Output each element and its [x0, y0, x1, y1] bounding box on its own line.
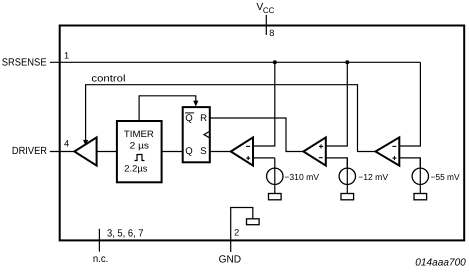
svg-text:2 µs: 2 µs: [130, 141, 150, 151]
comparator 1: [231, 137, 253, 165]
svg-text:−12 mV: −12 mV: [358, 172, 388, 182]
svg-text:SRSENSE: SRSENSE: [2, 58, 47, 69]
svg-text:CC: CC: [263, 6, 275, 15]
voltage source V1 -310 mV: [267, 158, 320, 194]
pin 1 SRSENSE label: [2, 50, 69, 68]
pulse symbol inside TIMER: [135, 155, 145, 161]
svg-text:014aaa700: 014aaa700: [415, 258, 466, 269]
svg-text:Q: Q: [185, 146, 192, 157]
svg-text:2.2µs: 2.2µs: [124, 164, 148, 174]
wire flip-flop R input from comparator 2 output: [210, 118, 304, 152]
wire SRSENSE end to comparator 3 minus input: [399, 62, 420, 146]
svg-text:GND: GND: [219, 254, 242, 265]
pin 2 GND stub: [219, 227, 242, 265]
IC package outline: [60, 26, 465, 241]
wire SRSENSE net (pin 1 horizontal): [50, 61, 420, 63]
ground symbol G4 (internal): [247, 219, 260, 225]
svg-text:4: 4: [64, 138, 69, 148]
wire comparator 2 minus input to source: [326, 158, 348, 168]
driver buffer amplifier: [74, 137, 96, 165]
svg-text:R: R: [200, 113, 207, 124]
wire comparator 1 plus input to source: [253, 157, 275, 159]
arrowhead control into driver: [83, 140, 88, 146]
wire timer right to flip-flop Q: [162, 151, 183, 153]
svg-text:1: 1: [64, 50, 69, 60]
pin 8 VCC stub: [266, 15, 274, 38]
svg-text:control: control: [91, 73, 125, 84]
wire pin 4 to driver output: [50, 151, 75, 153]
svg-text:DRIVER: DRIVER: [12, 146, 48, 157]
svg-text:8: 8: [269, 28, 274, 38]
wire flip-flop S input from comparator 1 output: [210, 151, 231, 153]
pin 4 DRIVER label: [12, 138, 69, 157]
svg-text:TIMER: TIMER: [124, 129, 154, 139]
wire driver input from timer: [97, 151, 117, 153]
svg-text:n.c.: n.c.: [93, 254, 108, 265]
svg-text:S: S: [200, 146, 206, 157]
edge trigger symbol on flip-flop right edge: [204, 132, 209, 138]
wire pin 2 to internal ground: [231, 208, 253, 241]
arrowhead into flip-flop top: [193, 101, 198, 107]
node junction dot A (SRSENSE to comp1): [273, 60, 277, 64]
wire SRSENSE tap to comparator 1 minus input: [253, 62, 275, 146]
voltage source V2 -12 mV: [339, 158, 388, 194]
svg-text:3, 5, 6, 7: 3, 5, 6, 7: [107, 228, 144, 239]
pins 3,5,6,7 n.c. stub: [93, 228, 144, 265]
svg-text:Q: Q: [185, 113, 192, 124]
svg-text:2: 2: [234, 227, 239, 237]
timer block TIMER: [117, 121, 162, 182]
comparator 3: [376, 137, 400, 165]
svg-text:−55 mV: −55 mV: [431, 172, 460, 182]
wire comparator 3 plus input to source: [399, 158, 420, 168]
ground symbol G2: [341, 194, 354, 200]
flip-flop latch block: [183, 107, 210, 162]
ground symbol G3: [414, 194, 427, 200]
wire control net (comp3 output to driver enable): [86, 85, 376, 152]
comparator 2: [303, 137, 325, 165]
net label VCC: [256, 2, 274, 15]
wire SRSENSE tap to comparator 2 plus input: [326, 62, 348, 146]
wire timer top to flip-flop clock: [139, 96, 196, 121]
svg-text:−310 mV: −310 mV: [284, 172, 319, 182]
node junction dot B (SRSENSE to comp2): [345, 60, 349, 64]
ground symbol G1: [269, 194, 282, 200]
voltage source V3 -55 mV: [412, 158, 460, 194]
